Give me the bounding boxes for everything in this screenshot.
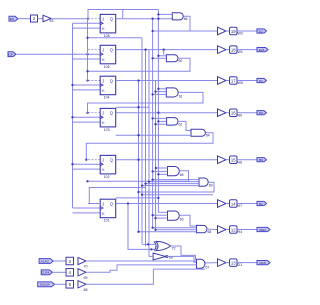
svg-text:68: 68 <box>84 288 88 292</box>
wire g65 fb <box>88 171 189 182</box>
output pin D2 <box>257 29 267 33</box>
junction CB <box>86 53 88 55</box>
buffer 63 <box>43 15 51 22</box>
wire box-pin row3 <box>237 80 257 82</box>
wire g60 fb <box>88 58 191 80</box>
wire SHLD4 run <box>86 269 205 284</box>
wire g61 fb <box>88 92 204 112</box>
junction bus-tap <box>137 159 139 161</box>
svg-text:CB: CB <box>8 53 12 57</box>
output buffer row3 <box>218 77 227 85</box>
wire g66 in1 <box>158 13 172 15</box>
junction J3 <box>86 79 88 81</box>
junction g60 drop <box>163 48 165 50</box>
wire K stub FF4 <box>73 121 101 123</box>
junction fb65 <box>86 180 88 182</box>
svg-text:K: K <box>102 211 105 216</box>
input pin ACP2 <box>39 259 53 264</box>
svg-text:K: K <box>102 26 105 31</box>
junction g69 <box>148 180 150 182</box>
svg-text:D1: D1 <box>238 263 243 267</box>
junction xline197 <box>157 197 159 199</box>
pin-number box 14 <box>230 200 238 208</box>
wire g64 fb <box>86 133 213 160</box>
wire g60 in <box>158 55 166 57</box>
and gate 60 <box>166 55 178 62</box>
junction q6d <box>127 202 129 204</box>
junction g68 <box>154 229 156 231</box>
wire buf-box row3 <box>226 80 230 82</box>
wire g69 in <box>153 179 199 181</box>
svg-text:106: 106 <box>104 65 110 69</box>
wire g60 in <box>153 57 167 59</box>
input pin CLR4 <box>41 270 52 275</box>
junction g60 <box>151 57 153 59</box>
flip-flop 108 <box>100 14 116 33</box>
junction g62 <box>154 123 156 125</box>
wire or72 out <box>171 246 196 260</box>
svg-text:108: 108 <box>104 34 110 38</box>
wire g65 in <box>158 173 167 175</box>
flip-flop 106 <box>100 45 116 64</box>
wire g63b in <box>153 214 168 216</box>
output buffer row5 <box>218 156 227 164</box>
svg-text:104: 104 <box>104 96 110 100</box>
svg-text:101: 101 <box>104 219 110 223</box>
wire xline197 <box>116 197 159 199</box>
svg-text:W2: W2 <box>238 32 243 36</box>
pin-number box 17 <box>230 77 238 85</box>
junction bus-tap <box>144 48 146 50</box>
wire g66 out <box>183 16 217 31</box>
wire clk stub FF4 <box>73 116 101 118</box>
and gate 69 <box>199 178 208 186</box>
clock bus vertical <box>72 23 74 208</box>
svg-text:WE2: WE2 <box>259 228 266 232</box>
output buffer row8 <box>218 259 227 267</box>
wire pin-box 4 <box>52 271 66 273</box>
wire g68 in <box>139 231 197 233</box>
wire top loop <box>88 10 158 19</box>
svg-text:H7: H7 <box>238 204 243 208</box>
flip-flop 104 <box>100 76 116 95</box>
wire buf-box row1 <box>226 30 230 32</box>
wire J dash FF1 <box>88 18 100 20</box>
svg-text:66: 66 <box>184 17 188 21</box>
junction g62 <box>151 117 153 119</box>
svg-text:K: K <box>102 167 105 172</box>
bus vertical 1 <box>138 81 140 232</box>
wire buf-box row5 <box>226 159 230 161</box>
wire clk stub FF1 <box>73 22 101 24</box>
wire buf-box row2 <box>226 49 230 51</box>
wire box-pin row6 <box>237 203 257 205</box>
J bus segment 1 <box>87 19 89 81</box>
junction bus-tap <box>157 18 159 20</box>
pin-number box 16 <box>230 109 238 117</box>
and gate 66 <box>172 13 183 20</box>
inverter 66i <box>153 253 166 260</box>
junction g66in1 <box>157 13 159 15</box>
wire ACP2 run <box>86 260 197 262</box>
junction bus-tap <box>137 79 139 81</box>
junction bus-tap <box>157 112 159 114</box>
svg-text:62: 62 <box>179 122 183 126</box>
output pin E15 <box>257 48 268 52</box>
wire under FF1 <box>88 37 143 39</box>
wire box2-buf63 <box>38 18 44 20</box>
wire J dash FF6 <box>88 203 100 205</box>
svg-text:J: J <box>102 158 104 163</box>
output buffer row2 <box>218 46 227 54</box>
wire buf-box row8 <box>226 262 230 264</box>
wire box-pin row4 <box>237 112 257 114</box>
svg-text:17: 17 <box>231 78 236 83</box>
junction bus-tap <box>151 18 153 20</box>
junction row1 <box>151 30 153 32</box>
svg-text:103: 103 <box>104 128 110 132</box>
junction fb60 <box>86 70 88 72</box>
pin-number box 19 <box>230 27 238 35</box>
svg-text:61: 61 <box>179 94 183 98</box>
output pin RAS <box>257 261 270 265</box>
svg-text:W1: W1 <box>238 50 243 54</box>
pin-number box 18 <box>230 46 238 54</box>
svg-text:H6: H6 <box>238 160 243 164</box>
junction fb69 <box>137 191 139 193</box>
input pin SHLD4 <box>38 282 55 287</box>
wire J dash FF5 <box>88 159 100 161</box>
svg-text:12: 12 <box>231 227 236 232</box>
bus vertical 4 <box>148 50 150 257</box>
svg-text:19: 19 <box>231 29 236 34</box>
junction g65 <box>155 167 157 169</box>
svg-text:68: 68 <box>208 230 212 234</box>
wire g69 in <box>149 181 199 183</box>
svg-text:H4: H4 <box>238 230 243 234</box>
and gate 61 <box>166 88 178 97</box>
svg-text:D0: D0 <box>259 111 263 115</box>
wire Q3 <box>116 80 218 82</box>
junction g60 <box>157 55 159 57</box>
svg-text:63: 63 <box>180 218 184 222</box>
output buffer row4 <box>218 109 227 117</box>
pin-number box 13 <box>230 259 238 267</box>
wire g62 in <box>158 120 166 122</box>
wire g69 fb <box>139 182 215 192</box>
junction g61 <box>151 93 153 95</box>
output pin B0 <box>257 158 267 162</box>
svg-text:102: 102 <box>104 175 110 179</box>
junction g65 <box>151 170 153 172</box>
wire K stub FF1 <box>73 27 101 29</box>
svg-text:63: 63 <box>50 19 54 23</box>
wire g67 out <box>205 262 218 264</box>
junction EN-J1 <box>87 18 89 20</box>
svg-text:J: J <box>102 111 104 116</box>
wire fb69b <box>142 194 213 196</box>
svg-text:69: 69 <box>84 276 88 280</box>
svg-text:15: 15 <box>231 157 236 162</box>
junction fb69b <box>141 194 143 196</box>
input pin EN <box>9 16 18 21</box>
wire clk stub FF5 <box>73 163 101 165</box>
svg-text:70: 70 <box>84 265 88 269</box>
wire buf-box row6 <box>226 203 230 205</box>
wire inv out <box>167 256 197 262</box>
wire J dash FF2 <box>88 49 100 51</box>
wire J dash FF4 <box>88 112 100 114</box>
svg-text:16: 16 <box>231 110 236 115</box>
junction g68 <box>151 227 153 229</box>
wire EN-box2 <box>18 18 31 20</box>
pin-number box 3 <box>66 257 74 265</box>
svg-text:18: 18 <box>231 47 236 52</box>
wire J dash FF3 <box>88 80 100 82</box>
wire g61 in <box>156 91 167 93</box>
wire K stub FF2 <box>73 58 101 60</box>
svg-text:N0: N0 <box>238 113 243 117</box>
wire Q4 <box>116 112 218 114</box>
svg-text:B0: B0 <box>259 158 263 162</box>
svg-text:60: 60 <box>179 59 183 63</box>
pin-number box 4 <box>66 269 74 277</box>
and gate 63b <box>168 211 180 220</box>
wire box-pin row5 <box>237 159 257 161</box>
wire J stub FF6b <box>89 203 100 205</box>
wire g63b in1 <box>158 211 167 213</box>
wire or72 in2 <box>128 204 157 250</box>
junction or72a <box>147 243 149 245</box>
wire CB-FF2 <box>16 53 100 55</box>
buffer 69 <box>78 269 86 276</box>
svg-text:69: 69 <box>209 184 213 188</box>
pin-number box 12 <box>230 226 238 234</box>
wire g62-g64 <box>178 121 191 130</box>
svg-text:J: J <box>102 79 104 84</box>
svg-text:67: 67 <box>206 266 210 270</box>
wire or72 in1 <box>142 243 157 245</box>
wire fb-mid <box>116 106 149 108</box>
wire fb-extra <box>89 188 145 204</box>
junction g69 <box>141 184 143 186</box>
junction underFF1 <box>86 37 88 39</box>
wire box-pin row8 <box>237 262 257 264</box>
wire g68 out <box>207 228 218 230</box>
wire inv in <box>149 255 153 257</box>
bus vertical 2 <box>141 38 143 244</box>
wire K stub FF6 <box>73 212 101 214</box>
wire g69 in <box>146 183 200 185</box>
bus vertical 3 <box>145 50 147 247</box>
svg-text:K: K <box>102 120 105 125</box>
wire g65 in <box>153 170 168 172</box>
svg-text:RAS: RAS <box>259 261 265 265</box>
junction clk <box>71 116 73 118</box>
junction J4 <box>86 112 88 114</box>
wire g65 in <box>156 167 168 169</box>
wire g69 in <box>142 185 199 187</box>
output buffer row6 <box>218 200 227 208</box>
wire row1 ext <box>153 30 190 32</box>
flip-flop 101 <box>100 199 116 218</box>
junction g64 <box>137 134 139 136</box>
junction g63b <box>154 217 156 219</box>
and gate 67 <box>197 259 205 268</box>
and gate 65 <box>168 167 180 176</box>
svg-text:EN: EN <box>10 17 14 21</box>
svg-text:J: J <box>102 202 104 207</box>
wire K stub FF5 <box>73 168 101 170</box>
output pin D0 <box>257 111 267 115</box>
buffer 70 <box>78 257 86 264</box>
output buffer row1 <box>218 27 227 35</box>
junction g69 <box>144 182 146 184</box>
wire g64 in3 <box>116 134 191 136</box>
pin-number box 15 <box>230 156 238 164</box>
svg-text:J: J <box>102 17 104 22</box>
output pin WE2 <box>257 227 270 231</box>
pin-number box 2 <box>31 15 38 22</box>
svg-text:72: 72 <box>172 247 176 251</box>
svg-text:D1: D1 <box>259 79 263 83</box>
svg-text:65: 65 <box>180 173 184 177</box>
wire g61 in <box>153 93 167 95</box>
wire Q1 <box>116 18 173 20</box>
and gate 62 <box>167 118 178 126</box>
junction g68 <box>137 231 139 233</box>
wire g61 in <box>158 88 166 90</box>
bus vertical 5 <box>152 19 154 228</box>
svg-text:64: 64 <box>206 134 210 138</box>
bus vertical 6 <box>155 81 157 230</box>
wire pin-box 3 <box>53 260 66 262</box>
wire clk stub FF6 <box>73 207 101 209</box>
wire g62 in <box>153 117 167 119</box>
input pin CB <box>8 52 16 57</box>
wire clk stub FF3 <box>73 84 101 86</box>
wire pin-box 5 <box>55 283 67 285</box>
wire buf-box row7 <box>226 229 230 231</box>
wire box-pin row7 <box>237 229 257 231</box>
svg-text:E15: E15 <box>259 48 265 52</box>
svg-text:W0: W0 <box>238 81 243 85</box>
junction g65 <box>157 173 159 175</box>
wire Q5 <box>116 159 218 161</box>
junction g61 <box>157 88 159 90</box>
svg-text:J: J <box>102 48 104 53</box>
svg-text:14: 14 <box>231 201 236 206</box>
wire buf63-FF1J <box>51 18 88 20</box>
flip-flop 103 <box>100 108 116 127</box>
junction fb64 <box>85 159 87 161</box>
output buffer row7 <box>218 226 227 234</box>
junction clk <box>71 163 73 165</box>
svg-text:CLR4: CLR4 <box>41 271 49 275</box>
wire g63b in <box>156 217 168 219</box>
junction g69 <box>151 178 153 180</box>
svg-text:K: K <box>102 88 105 93</box>
flip-flop 102 <box>100 155 116 174</box>
output pin D1 <box>257 78 267 82</box>
svg-text:ACP2: ACP2 <box>41 259 49 263</box>
svg-text:K: K <box>102 57 105 62</box>
svg-text:D2: D2 <box>259 29 263 33</box>
wire g62 in <box>156 123 167 125</box>
junction g63b <box>151 214 153 216</box>
wire g60 drop <box>163 50 165 55</box>
pin-number box 5 <box>66 281 74 289</box>
bus vertical 7 <box>157 10 159 213</box>
wire g68 in <box>153 227 197 229</box>
and gate 68 <box>197 225 208 232</box>
buffer 68 <box>78 281 86 288</box>
wire top loop drop <box>122 10 124 19</box>
and gate 64 <box>191 129 205 136</box>
wire box-pin row1 <box>237 30 257 32</box>
wire g63b-g68 <box>179 215 196 226</box>
svg-text:SHLD4: SHLD4 <box>40 283 50 287</box>
wire Q2 <box>116 49 218 51</box>
wire K stub FF3 <box>73 89 101 91</box>
output pin B2 <box>257 201 267 205</box>
wire box-pin row2 <box>237 49 257 51</box>
wire CLR4 run <box>86 265 197 272</box>
svg-text:B2: B2 <box>259 202 263 206</box>
wire Q6 <box>116 203 218 205</box>
junction g61 <box>154 90 156 92</box>
junction g62 <box>157 120 159 122</box>
junction clk <box>71 84 73 86</box>
junction or72b <box>150 248 152 250</box>
svg-text:13: 13 <box>231 260 236 265</box>
wire g68 in <box>156 229 197 231</box>
or gate 72 <box>156 241 171 250</box>
wire buf-box row4 <box>226 112 230 114</box>
junction fb61 <box>137 106 139 108</box>
